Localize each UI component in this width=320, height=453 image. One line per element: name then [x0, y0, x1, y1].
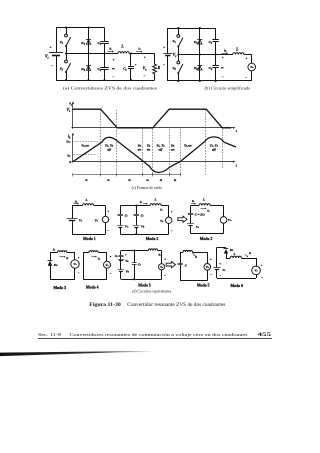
- svg-text:+: +: [171, 210, 173, 214]
- svg-text:−: −: [110, 272, 112, 276]
- svg-text:Vs: Vs: [79, 218, 82, 222]
- svg-text:Modo 6: Modo 6: [231, 284, 244, 288]
- svg-text:IL1: IL1: [65, 140, 70, 144]
- svg-text:Modo 2: Modo 2: [200, 237, 213, 241]
- svg-text:Modo 3: Modo 3: [54, 286, 67, 290]
- svg-text:Modo 1: Modo 1: [83, 237, 96, 241]
- svg-text:−: −: [144, 74, 146, 78]
- svg-text:D2: D2: [193, 66, 199, 71]
- svg-text:455: 455: [258, 333, 273, 338]
- svg-text:+: +: [164, 257, 166, 261]
- svg-text:−: −: [78, 271, 80, 275]
- svg-text:−: −: [164, 273, 166, 277]
- svg-text:L: L: [233, 252, 236, 256]
- svg-text:−: −: [113, 75, 115, 79]
- svg-text:Vs: Vs: [196, 225, 199, 229]
- svg-text:−: −: [222, 75, 224, 79]
- svg-text:on: on: [171, 148, 175, 152]
- svg-text:−: −: [51, 64, 53, 68]
- svg-text:Modo 2: Modo 2: [146, 237, 159, 241]
- svg-text:Sec. 11-8: Sec. 11-8: [38, 332, 62, 337]
- svg-text:−: −: [107, 228, 109, 232]
- svg-text:D2: D2: [80, 67, 86, 72]
- svg-text:+: +: [223, 211, 225, 215]
- svg-text:Modo 5: Modo 5: [138, 284, 151, 288]
- svg-text:L: L: [202, 197, 205, 201]
- svg-text:(b) Circuito simplificado: (b) Circuito simplificado: [205, 85, 251, 90]
- svg-text:Vs: Vs: [222, 268, 225, 272]
- svg-text:−: −: [171, 229, 173, 233]
- svg-text:Vs: Vs: [173, 53, 176, 58]
- svg-text:+: +: [246, 57, 248, 61]
- svg-text:Modo 4: Modo 4: [86, 285, 99, 289]
- svg-text:+: +: [163, 46, 165, 50]
- svg-text:Cr: Cr: [125, 213, 128, 217]
- svg-text:+: +: [110, 255, 112, 259]
- svg-text:Vo: Vo: [143, 66, 148, 71]
- svg-text:(a) Convertidores ZVS de dos c: (a) Convertidores ZVS de dos cuadrantes: [63, 85, 158, 90]
- svg-text:T1,on: T1,on: [81, 144, 89, 148]
- svg-text:Convertidores resonantes de co: Convertidores resonantes de conmutación …: [70, 332, 248, 337]
- svg-text:+: +: [144, 56, 146, 60]
- svg-text:−: −: [163, 63, 165, 67]
- svg-text:+: +: [261, 263, 263, 267]
- svg-text:iL: iL: [68, 134, 71, 139]
- svg-text:Modo 5: Modo 5: [197, 284, 210, 288]
- svg-text:Vs: Vs: [67, 108, 70, 113]
- svg-text:−: −: [210, 273, 212, 277]
- svg-text:on: on: [138, 148, 142, 152]
- svg-text:−: −: [261, 276, 263, 280]
- svg-text:Vs: Vs: [45, 55, 49, 60]
- svg-text:+: +: [78, 256, 80, 260]
- svg-text:L: L: [153, 197, 156, 201]
- svg-text:D1: D1: [193, 40, 199, 45]
- svg-text:0: 0: [69, 160, 71, 164]
- svg-text:on: on: [147, 148, 151, 152]
- svg-text:Cr: Cr: [141, 213, 144, 217]
- svg-text:+: +: [50, 45, 52, 49]
- svg-text:(d) Circuitos equivalentes: (d) Circuitos equivalentes: [132, 289, 172, 293]
- svg-text:D1: D1: [80, 41, 86, 46]
- svg-text:T1,on: T1,on: [184, 144, 192, 148]
- svg-text:Figura 11-30: Figura 11-30: [89, 303, 121, 308]
- svg-text:+: +: [210, 257, 212, 261]
- svg-text:t1: t1: [85, 178, 87, 182]
- svg-text:(c) Formas de onda: (c) Formas de onda: [132, 186, 162, 190]
- svg-text:+: +: [113, 58, 115, 62]
- svg-text:C = 2Cr: C = 2Cr: [195, 213, 205, 217]
- svg-text:Im: Im: [66, 153, 70, 157]
- svg-text:−: −: [245, 75, 247, 79]
- svg-text:+: +: [222, 56, 224, 60]
- svg-text:D2: D2: [53, 263, 58, 267]
- svg-text:Convertidor resonante ZVS de d: Convertidor resonante ZVS de dos cuadran…: [127, 303, 225, 308]
- svg-text:+: +: [107, 209, 109, 213]
- svg-text:−: −: [223, 228, 225, 232]
- svg-text:L: L: [84, 198, 87, 202]
